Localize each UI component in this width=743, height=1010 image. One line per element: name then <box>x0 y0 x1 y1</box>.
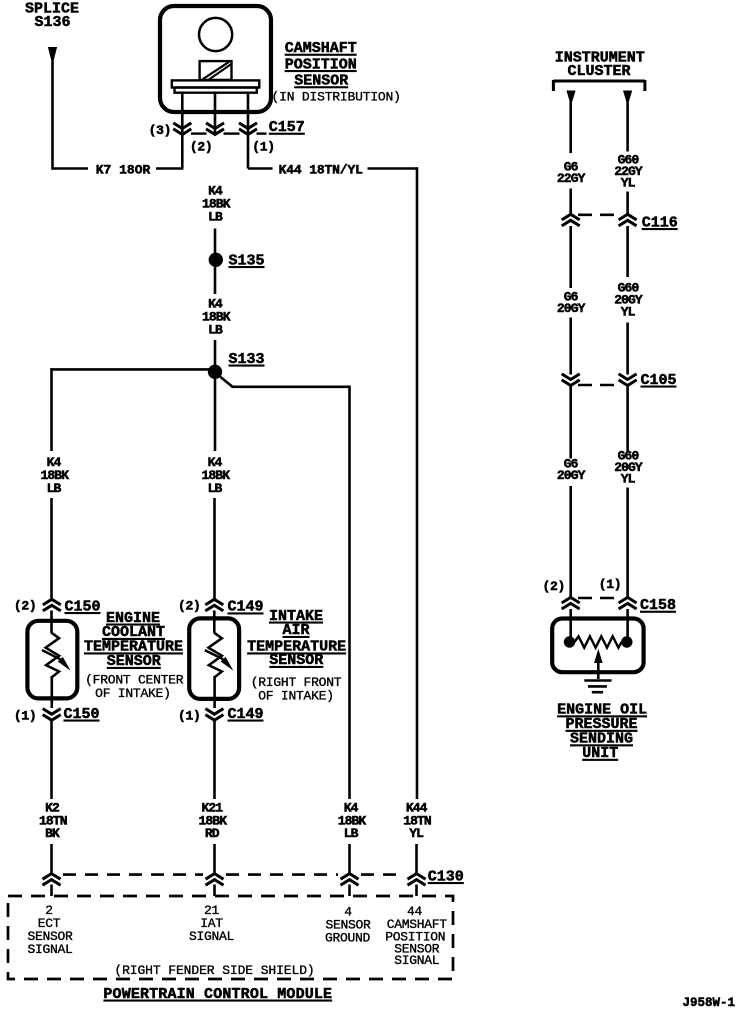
connector C130 chevrons col1 <box>43 874 61 880</box>
connector C149 top chevrons <box>205 599 223 605</box>
IAT sensor box <box>189 618 239 699</box>
wire: G6 seg3 <box>569 386 572 459</box>
svg-text:SIGNAL: SIGNAL <box>394 953 439 968</box>
svg-text:(1): (1) <box>599 577 622 592</box>
wire: K44 horizontal right part <box>368 167 418 170</box>
connector C130 dashed line <box>63 873 203 876</box>
wire: ECT to PCM upper <box>50 721 53 800</box>
svg-text:BK: BK <box>45 826 60 841</box>
connector C130 chevrons col2 <box>206 874 224 880</box>
ground symbol <box>584 679 611 682</box>
instrument cluster arrow right <box>623 91 632 102</box>
connector C157 pin 3 chevrons <box>173 123 191 129</box>
svg-text:K7 18OR: K7 18OR <box>96 162 151 177</box>
wire: K44 vertical <box>416 167 419 799</box>
wire: IAT thermistor to pin1 <box>213 676 216 708</box>
connector C157 pin 2 chevrons <box>206 123 224 129</box>
wire: pin1 horizontal stub <box>248 167 273 170</box>
wire: G60 seg2 <box>626 226 629 277</box>
svg-text:K44 18TN/YL: K44 18TN/YL <box>279 162 364 177</box>
svg-text:(1): (1) <box>252 140 275 155</box>
oil unit right terminal dot <box>621 636 632 647</box>
wire: left vertical to ECT <box>50 498 53 600</box>
wire: G60 seg3 <box>626 386 629 452</box>
connector C150 top chevrons <box>43 599 61 605</box>
node: splice S135 dot <box>209 253 223 267</box>
connector C157 pin 1 chevrons <box>239 123 257 129</box>
svg-text:YL: YL <box>621 304 636 319</box>
connector C150 bottom chevrons <box>43 709 61 715</box>
wire: left branch vertical upper <box>50 368 53 451</box>
wire: right branch horizontal <box>232 385 350 388</box>
wire: C130 to PCM col2 <box>213 885 216 897</box>
wire: ECT thermistor to pin1 <box>50 676 53 708</box>
wire: G6 seg2b <box>569 318 572 375</box>
wire: C130 to PCM col1 <box>50 885 53 897</box>
svg-text:OF INTAKE): OF INTAKE) <box>258 688 334 703</box>
svg-text:(RIGHT FENDER SIDE SHIELD): (RIGHT FENDER SIDE SHIELD) <box>114 963 314 978</box>
camshaft position sensor box <box>160 6 271 112</box>
wire: G60 seg2b <box>626 323 629 375</box>
svg-text:RD: RD <box>205 826 220 841</box>
connector C158 chevron left <box>562 597 580 603</box>
svg-text:J958W-1: J958W-1 <box>683 996 736 1010</box>
wire: sensor pin 2 lead <box>214 93 217 135</box>
svg-text:20GY: 20GY <box>557 301 586 316</box>
wire: stub to C130 col2 <box>213 844 216 874</box>
connector C149 bottom chevrons <box>205 709 223 715</box>
svg-text:YL: YL <box>621 472 636 487</box>
oil unit resistor zigzag <box>575 636 622 647</box>
connector C105 dashed link <box>578 384 620 387</box>
engine oil pressure sending unit box <box>552 619 643 673</box>
svg-text:(2): (2) <box>190 140 213 155</box>
svg-text:LB: LB <box>208 209 223 224</box>
ECT thermistor arrow <box>42 650 60 659</box>
wire: into IAT thermistor <box>213 611 216 634</box>
svg-text:LB: LB <box>208 481 223 496</box>
wire: C158 left into box <box>569 609 572 640</box>
node: splice S133 dot <box>208 365 222 379</box>
svg-text:LB: LB <box>208 322 223 337</box>
connector C157 dashed links <box>191 132 207 134</box>
camshaft sensor: mounting bar <box>172 80 259 87</box>
svg-text:(IN DISTRIBUTION): (IN DISTRIBUTION) <box>272 90 401 105</box>
svg-text:(1): (1) <box>178 708 201 723</box>
svg-text:(3): (3) <box>149 123 172 138</box>
svg-text:LB: LB <box>47 481 62 496</box>
connector C130 chevrons col3 <box>341 874 359 880</box>
wire: G60 seg3b <box>626 488 629 599</box>
ECT thermistor zigzag <box>46 633 60 677</box>
instrument cluster arrow left <box>566 91 575 102</box>
wire: label to S133 <box>214 340 217 365</box>
wire: S133 left branch horizontal <box>52 368 210 371</box>
wire: S133 right branch diagonal <box>219 376 233 387</box>
connector C105 chevron right <box>619 374 637 380</box>
svg-text:LB: LB <box>344 826 359 841</box>
svg-text:SIGNAL: SIGNAL <box>27 942 72 957</box>
connector C158 chevron right <box>619 597 637 603</box>
svg-text:(2): (2) <box>543 579 566 594</box>
connector C116 chevron left <box>562 214 580 220</box>
IAT thermistor arrow <box>205 650 223 659</box>
wire: pin2 to S135 <box>214 229 217 254</box>
svg-text:YL: YL <box>409 826 424 841</box>
svg-text:22GY: 22GY <box>557 171 586 186</box>
wire: K7 18OR horizontal right part <box>156 167 183 170</box>
connector C130 chevrons col4 <box>408 874 426 880</box>
svg-text:(2): (2) <box>14 598 37 613</box>
wire: into ECT thermistor <box>50 611 53 634</box>
wire: C130 to PCM col4 <box>415 885 418 897</box>
svg-text:20GY: 20GY <box>557 468 586 483</box>
camshaft sensor: circle <box>199 18 232 51</box>
svg-text:S136: S136 <box>34 14 70 31</box>
wire: K7 18OR horizontal left part <box>53 167 89 170</box>
wire: G6 seg1 <box>569 101 572 153</box>
connector C158 dashed link <box>578 597 620 600</box>
svg-text:CLUSTER: CLUSTER <box>567 63 630 80</box>
wire: G60 seg1 <box>626 101 629 152</box>
wire: G6 seg3b <box>569 486 572 598</box>
instrument cluster bracket <box>553 80 645 83</box>
wire: C158 right into box <box>626 609 629 640</box>
svg-text:(1): (1) <box>14 708 37 723</box>
wire: sensor-ground vertical <box>348 386 351 800</box>
oil unit wiper arrow <box>594 649 603 663</box>
oil unit left terminal dot <box>564 636 575 647</box>
ECT sensor box <box>27 621 77 699</box>
camshaft sensor: hatched block <box>200 61 232 80</box>
svg-text:(2): (2) <box>178 598 201 613</box>
connector C105 chevron left <box>562 374 580 380</box>
wire: stub to C130 col1 <box>50 844 53 874</box>
IAT thermistor zigzag <box>208 633 222 677</box>
wire: S135 to label <box>214 267 217 294</box>
wire: splice S136 vertical <box>51 59 54 170</box>
wire: stub to C130 col4 <box>415 844 418 874</box>
connector C116 dashed link <box>578 214 620 217</box>
svg-text:SIGNAL: SIGNAL <box>189 929 234 944</box>
wire: stub to C130 col3 <box>348 844 351 874</box>
wire: sensor pin 1 lead <box>247 93 250 169</box>
splice S136 off-page arrow <box>48 47 57 60</box>
wire: S133 down then to IAT <box>214 379 217 452</box>
wire: C130 to PCM col3 <box>348 885 351 897</box>
wire: sensor pin 3 lead <box>181 93 184 169</box>
connector C116 chevron right <box>619 214 637 220</box>
svg-text:OF INTAKE): OF INTAKE) <box>95 686 171 701</box>
wire: G6 seg1b <box>569 189 572 215</box>
wire: G6 seg2 <box>569 226 572 288</box>
powertrain control module dashed box <box>8 896 453 979</box>
wire: IAT to PCM upper <box>213 721 216 800</box>
svg-text:YL: YL <box>621 176 636 191</box>
svg-text:GROUND: GROUND <box>325 930 371 945</box>
wire: G60 seg1b <box>626 192 629 215</box>
